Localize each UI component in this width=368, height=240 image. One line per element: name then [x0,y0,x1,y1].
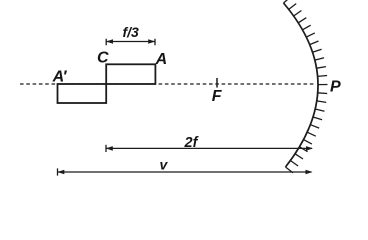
svg-text:v: v [160,157,169,173]
svg-text:A: A [155,51,168,68]
svg-text:f/3: f/3 [123,24,140,40]
svg-text:A′: A′ [52,69,68,86]
svg-text:2f: 2f [184,135,200,151]
svg-text:F: F [212,88,223,105]
svg-text:P: P [330,79,341,96]
svg-text:C: C [97,50,109,67]
